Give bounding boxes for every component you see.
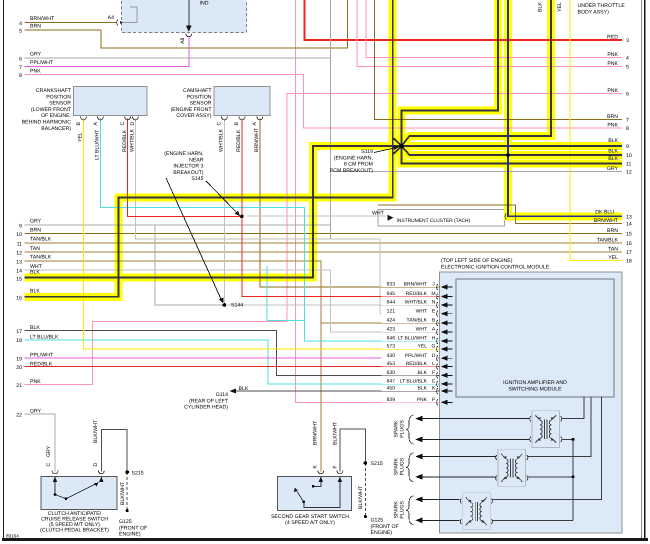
left edge wire labels/numbers: [16, 16, 59, 419]
svg-text:IGNITION AMPLIFIER AND: IGNITION AMPLIFIER AND: [503, 380, 567, 386]
svg-text:PPL/WHT: PPL/WHT: [30, 352, 54, 358]
pointer to splice S145: [206, 181, 238, 213]
svg-text:BLK: BLK: [239, 386, 249, 392]
svg-text:PNK: PNK: [30, 68, 41, 74]
wire BRN/WHT 14 (right): from cluster top jog at x=515.4: [378, 205, 622, 224]
wire BLK/WHT clutch pin D to splice S215: [101, 429, 127, 472]
svg-text:C: C: [432, 379, 436, 385]
svg-text:5: 5: [626, 65, 629, 71]
ground G125 (right): [364, 515, 367, 518]
clutch switch contact dot 2: [65, 497, 68, 500]
ignition coil T2: [496, 449, 528, 486]
BLK core: S119 north ray: [402, 0, 499, 146]
spark plug lead 2: [421, 438, 530, 440]
module pin arrow J: [441, 285, 448, 290]
connector cup A8: [186, 34, 192, 37]
svg-text:D: D: [130, 122, 136, 126]
svg-text:TAN: TAN: [608, 247, 618, 253]
svg-text:IND: IND: [200, 1, 209, 7]
svg-text:BLK/WHT: BLK/WHT: [358, 485, 364, 509]
splice S119: [399, 144, 403, 148]
wire BLK 450 module pin K to ground G114: [236, 390, 440, 392]
second gear switch contact dot 2: [302, 501, 305, 504]
svg-text:WHT/BLK: WHT/BLK: [405, 300, 428, 306]
svg-text:PNK: PNK: [607, 88, 618, 94]
svg-text:13: 13: [16, 260, 22, 266]
module pin rows: [387, 282, 436, 403]
svg-text:LT BLU/WHT: LT BLU/WHT: [398, 336, 427, 342]
module pin bracket B: [437, 320, 438, 326]
clutch switch contact dot 1: [54, 493, 57, 496]
module pin bracket K: [437, 388, 438, 394]
module pin arrow P: [441, 400, 448, 405]
svg-text:DK BLU: DK BLU: [595, 209, 614, 215]
splice S144: [223, 303, 227, 307]
spark plug arrow 5: [415, 497, 422, 503]
module pin arrow B: [441, 321, 448, 326]
wire BLK 17 to module pin F: [25, 330, 440, 375]
ignition coil T3: [460, 493, 492, 530]
svg-text:PNK: PNK: [30, 379, 41, 385]
svg-text:13: 13: [626, 214, 632, 220]
camshaft position sensor box: [214, 87, 270, 116]
svg-text:CRANKSHAFT: CRANKSHAFT: [36, 88, 72, 94]
svg-text:645: 645: [387, 291, 396, 297]
spark plugs brace pair 3: [406, 496, 414, 525]
svg-text:WHT: WHT: [416, 327, 427, 333]
wire PNK 839 to module pin P: vertical from top at x=295.7: [296, 0, 440, 402]
svg-text:H: H: [432, 336, 436, 342]
svg-text:4: 4: [19, 21, 22, 27]
svg-text:839: 839: [387, 397, 396, 403]
wire PNK 4 (right): vertical from top, to right edge: [366, 0, 622, 57]
module pin arrow M: [441, 294, 448, 299]
module pin bracket P: [437, 399, 438, 405]
clutch switch contact from pin C: [54, 477, 56, 495]
highlighted BLK wire halo: S119 vertical feed from top, down-left band to left edge wire 16: [25, 0, 393, 297]
wire RED/BLK cam pin B through S145 to module pin M: [242, 119, 440, 297]
wire PNK 6 + 21: right edge y=93.5 to left edge y=385 S-route: [25, 94, 623, 385]
splice S145: [240, 215, 244, 219]
crankshaft position sensor label: [22, 88, 72, 132]
module pin arrow E: [441, 311, 448, 316]
ignition coil assembly dashed box (cut off at top): [122, 0, 247, 33]
svg-text:14: 14: [16, 269, 22, 275]
svg-text:YEL: YEL: [78, 132, 84, 142]
module pin arrow G: [441, 347, 448, 352]
wire BLK/WHT dashed S215 to ground G125: [126, 472, 128, 510]
second gear start switch box: [278, 477, 352, 511]
svg-text:F: F: [432, 370, 435, 376]
svg-text:A4: A4: [108, 15, 114, 21]
wire BLK/WHT dashed S215 to ground G125 (right): [364, 463, 366, 516]
arrow into instrument cluster: [388, 215, 394, 221]
coil T3 feeds: [492, 397, 601, 500]
wire GRY 6 (left): to vertical x=330.3 going top: [25, 57, 331, 59]
svg-text:7: 7: [19, 65, 22, 71]
wire LT BLU/BLK 18 to module pin C: [25, 340, 440, 384]
svg-text:PNK: PNK: [607, 123, 618, 129]
wire WHT/BLK 644 branch to module pin N: [224, 304, 439, 306]
svg-text:S144: S144: [231, 303, 243, 309]
pointer to splice S119: [374, 148, 397, 153]
svg-text:WHT: WHT: [416, 308, 427, 314]
svg-text:B: B: [234, 122, 240, 126]
arrow up into second gear pin K: [319, 477, 323, 482]
connector cup crank pin C: [125, 117, 131, 120]
svg-text:10: 10: [16, 232, 22, 238]
svg-text:15: 15: [16, 277, 22, 283]
clutch switch link: [55, 495, 66, 499]
svg-text:BLK: BLK: [30, 289, 40, 295]
svg-text:BLK: BLK: [30, 269, 40, 275]
wire WHT/BLK cam pin C down to S144: [223, 119, 225, 306]
wire BLK/WHT second gear pin F to splice S215: [340, 429, 366, 472]
highlighted BLK wire halo: S119 east ray, wire 9: [402, 142, 623, 150]
svg-text:A: A: [252, 122, 258, 126]
wire TAN 12-17: straight across: [25, 251, 623, 253]
svg-text:NEAR: NEAR: [189, 157, 204, 163]
svg-text:PLUGS: PLUGS: [400, 457, 406, 475]
svg-text:TAN/BLK: TAN/BLK: [30, 255, 52, 261]
svg-text:OF ENGINE,: OF ENGINE,: [41, 113, 71, 119]
svg-text:TAN/BLK: TAN/BLK: [30, 237, 52, 243]
clutch switch label: [40, 511, 109, 534]
module pin arrow D: [441, 356, 448, 361]
svg-text:K: K: [313, 465, 319, 469]
wire GRY vertical x=330.3: [329, 0, 331, 239]
svg-text:POSITION: POSITION: [187, 94, 212, 100]
svg-text:RED/BLK: RED/BLK: [122, 129, 128, 152]
svg-text:SENSOR: SENSOR: [49, 101, 71, 107]
svg-text:YEL: YEL: [418, 344, 428, 350]
svg-text:17: 17: [626, 250, 632, 256]
module pin arrow K: [441, 389, 448, 394]
arrow on second gear blade: [294, 488, 298, 492]
wire WHT 14 (left) to module pin A: [25, 270, 440, 332]
module pin arrow L: [441, 364, 448, 369]
camshaft position sensor label: [171, 88, 213, 119]
module pin arrow H: [441, 339, 448, 344]
svg-text:(ENGINE HARN,: (ENGINE HARN,: [334, 155, 373, 161]
wire BRN 10-15: left edge to right edge straight: [25, 233, 623, 235]
svg-text:BRN/WHT: BRN/WHT: [404, 282, 427, 288]
BLK core: wire 10: [402, 146, 623, 155]
right page border inner: [640, 0, 642, 540]
svg-text:PNK: PNK: [607, 61, 618, 67]
module pin arrow F: [441, 373, 448, 378]
svg-text:20: 20: [16, 365, 22, 371]
BLK core: S119 west ray to wire 15: [25, 146, 402, 278]
right page border outer: [644, 0, 646, 540]
spark plug arrow 2: [415, 437, 422, 443]
svg-text:RED/BLK: RED/BLK: [406, 361, 428, 367]
module pin bracket M: [437, 294, 438, 300]
svg-text:(LOWER FRONT: (LOWER FRONT: [31, 107, 72, 113]
svg-text:89164: 89164: [6, 534, 19, 539]
second gear switch pin F internal path: [304, 477, 340, 508]
BLK core: S119 feed and band to wire 16: [25, 0, 393, 297]
clutch switch blade: [66, 483, 99, 499]
svg-text:(ENGINE HARN,: (ENGINE HARN,: [164, 151, 203, 157]
svg-text:YEL: YEL: [608, 255, 618, 261]
svg-text:CAMSHAFT: CAMSHAFT: [183, 88, 212, 94]
ignition coil T1: [530, 411, 562, 448]
svg-text:GRY: GRY: [30, 219, 42, 225]
svg-text:12: 12: [626, 170, 632, 176]
svg-text:G125: G125: [119, 519, 132, 525]
S145 splice label: [164, 151, 203, 182]
wire GRY S144 feed: from wire 9 down to splice S144: [155, 225, 222, 305]
connector cup second gear pin K: [318, 471, 324, 474]
wire RED 3: from coil top, corner at x=304.5 to right edge: [305, 0, 623, 40]
S119 splice label: [330, 149, 374, 174]
svg-text:BRN: BRN: [30, 24, 41, 30]
svg-text:BRN/WHT: BRN/WHT: [30, 16, 55, 22]
svg-text:ELECTRONIC IGNITION CONTROL MO: ELECTRONIC IGNITION CONTROL MODULE: [441, 264, 550, 270]
svg-text:7: 7: [626, 118, 629, 124]
svg-text:PCM BREAKOUT): PCM BREAKOUT): [330, 168, 374, 174]
svg-text:BLK: BLK: [30, 325, 40, 331]
svg-text:11: 11: [626, 162, 631, 168]
coil bus junction 2: [572, 475, 575, 478]
connector cup cam pin A: [257, 117, 263, 120]
svg-text:PNK: PNK: [607, 52, 618, 58]
spark plugs brace pair 2: [406, 453, 414, 482]
spark plug lead 5: [421, 498, 460, 500]
DK BLU core: tach signal wire 13: [508, 0, 622, 216]
spark plug arrow 1: [415, 416, 422, 422]
ignition amplifier and switching module inner box: [456, 279, 614, 397]
svg-text:RED/BLK: RED/BLK: [30, 361, 53, 367]
svg-text:C: C: [120, 122, 126, 126]
wire LT BLU branch L at x=267: [267, 266, 305, 320]
svg-text:S215: S215: [132, 470, 144, 476]
wire PNK 8: left edge y=74.7, jog at x=303.4 down to y=128, to right edge: [25, 75, 623, 128]
connector arrow A4: [120, 21, 124, 24]
BLK core: S119 NW/SW diagonals: [393, 138, 402, 155]
svg-text:G: G: [432, 344, 436, 350]
module pin arrow A: [441, 330, 448, 335]
connector cup clutch pin D: [98, 471, 104, 474]
svg-text:4: 4: [626, 55, 629, 61]
svg-text:17: 17: [16, 329, 22, 335]
svg-text:B: B: [76, 122, 82, 126]
highlighted BLK wire halo: S119 north-east ray to x=551 vertical: [402, 0, 552, 146]
svg-text:A: A: [93, 122, 99, 126]
wire TAN/BLK 13 to second gear start switch pin K: [25, 261, 321, 472]
svg-text:TAN: TAN: [30, 246, 40, 252]
rotated labels: [46, 2, 563, 519]
connector cup clutch pin C: [52, 471, 58, 474]
wire BRN/WHT cam pin A to module pin J: [260, 119, 440, 288]
wire BRN 7: vertical from top at x=374.7 to right edge y=119.5: [375, 0, 622, 120]
wire BRN/WHT 4 (left): [25, 21, 118, 23]
svg-text:BREAKOUT): BREAKOUT): [173, 170, 204, 176]
wire PPL/WHT 7 to connector A8: [25, 37, 189, 67]
svg-text:10: 10: [626, 153, 632, 159]
svg-text:LT BLU/BLK: LT BLU/BLK: [30, 335, 59, 341]
svg-text:BLK/WHT: BLK/WHT: [333, 421, 339, 445]
second gear switch label: [271, 514, 349, 526]
svg-text:WHT: WHT: [372, 210, 385, 216]
arrow on clutch blade: [94, 483, 98, 487]
svg-text:WHT/BLK: WHT/BLK: [219, 128, 225, 152]
svg-text:BLK: BLK: [418, 386, 428, 392]
coil common bus: [572, 439, 574, 520]
svg-text:UNDER THROTTLE: UNDER THROTTLE: [578, 3, 626, 9]
svg-text:(TOP LEFT SIDE OF ENGINE): (TOP LEFT SIDE OF ENGINE): [441, 258, 513, 264]
second gear switch blade: [295, 488, 304, 502]
svg-text:GRY: GRY: [30, 409, 42, 415]
module pin bracket F: [437, 372, 438, 378]
ground G125 (left): [126, 509, 129, 512]
svg-text:S215: S215: [371, 461, 383, 467]
svg-text:(FRONT OF: (FRONT OF: [119, 525, 147, 531]
svg-text:A8: A8: [180, 38, 186, 44]
svg-text:INSTRUMENT CLUSTER (TACH): INSTRUMENT CLUSTER (TACH): [397, 218, 471, 224]
spark plug lead 3: [421, 456, 496, 458]
svg-text:BEHIND HARMONIC: BEHIND HARMONIC: [22, 120, 72, 126]
second gear switch contact dot 1: [312, 485, 315, 488]
svg-text:POSITION: POSITION: [46, 94, 71, 100]
svg-text:C: C: [217, 122, 223, 126]
spark plug arrow 3: [415, 454, 422, 460]
svg-text:14: 14: [626, 222, 632, 228]
instrument cluster box: [378, 210, 505, 227]
svg-text:PNK: PNK: [417, 397, 428, 403]
BLK core: wire 9: [402, 145, 623, 147]
svg-text:YEL: YEL: [557, 2, 563, 12]
left page border: [3, 0, 5, 540]
module pin bracket C: [437, 381, 438, 387]
highlighted BLK wire halo: S119 north ray up to coil (top edge): [402, 0, 499, 146]
ground G114 label: [184, 392, 229, 411]
svg-text:CYLINDER HEAD): CYLINDER HEAD): [184, 405, 228, 411]
svg-text:6: 6: [19, 56, 22, 62]
connector cup crank pin B: [81, 117, 87, 120]
spark plugs brace pair 1: [406, 415, 414, 444]
spark plug lead 6: [421, 519, 460, 521]
svg-text:BRN/WHT: BRN/WHT: [594, 218, 619, 224]
module pin bracket G: [437, 346, 438, 352]
wire WHT tach lead to instrument cluster: [247, 215, 387, 217]
svg-text:450: 450: [387, 386, 396, 392]
arrow down into A8: [186, 26, 192, 32]
module pin arrow C: [441, 381, 448, 386]
svg-text:S145: S145: [191, 176, 203, 182]
arrow up into clutch pin D: [99, 477, 103, 482]
svg-text:8: 8: [626, 126, 629, 132]
clutch anticipate / cruise release switch box: [41, 477, 117, 510]
connector cup crank pin A: [97, 117, 103, 120]
svg-text:BLK/WHT: BLK/WHT: [93, 419, 99, 443]
svg-text:PPL/WHT: PPL/WHT: [30, 60, 54, 66]
svg-text:647: 647: [387, 379, 396, 385]
connector cup cam pin B: [239, 117, 245, 120]
connector cup crank pin D: [132, 117, 138, 120]
wire RED/BLK crank pin C to splice S145: [128, 119, 240, 217]
svg-text:RED: RED: [607, 35, 618, 41]
svg-text:PLUGS: PLUGS: [400, 420, 406, 438]
spark plug lead 1: [421, 418, 530, 420]
module pin bracket H: [437, 338, 438, 344]
highlighted BLK wire halo: S119 NW/SW diagonals to x=392.7 vertical: [393, 138, 402, 155]
svg-text:BLK: BLK: [608, 156, 618, 162]
svg-text:BLK: BLK: [418, 370, 428, 376]
coil bus junction 1: [572, 438, 575, 441]
svg-text:PLUGS: PLUGS: [400, 500, 406, 518]
svg-text:646: 646: [387, 336, 396, 342]
svg-text:LT BLU/WHT: LT BLU/WHT: [95, 129, 101, 160]
svg-text:N: N: [432, 300, 436, 306]
highlighted BLK wire halo: S119 west ray to wire 15 left edge: [25, 146, 402, 278]
svg-text:COVER ASSY): COVER ASSY): [176, 113, 211, 119]
svg-text:(ENGINE FRONT: (ENGINE FRONT: [171, 107, 213, 113]
svg-text:11: 11: [17, 241, 22, 247]
svg-text:C: C: [46, 463, 52, 467]
svg-text:GRY: GRY: [46, 445, 52, 457]
arrow ground G114: [230, 388, 237, 393]
svg-text:3: 3: [626, 38, 629, 44]
svg-text:430: 430: [387, 353, 396, 359]
svg-text:(4 SPEED A/T ONLY): (4 SPEED A/T ONLY): [285, 520, 335, 526]
svg-text:121: 121: [387, 308, 396, 314]
bottom page border: [2, 538, 648, 541]
svg-text:TAN/BLK: TAN/BLK: [597, 237, 619, 243]
highlighted BLK wire halo: S119 south-east ray, wire 10: [402, 146, 623, 155]
module pin bracket E: [437, 311, 438, 317]
svg-text:BALANCER): BALANCER): [41, 126, 71, 132]
svg-text:(REAR OF LEFT: (REAR OF LEFT: [189, 398, 229, 404]
svg-text:424: 424: [387, 318, 396, 324]
wire YEL 18 (right): vertical from top at x=570: [570, 0, 622, 260]
right edge wire labels/numbers: [594, 35, 632, 265]
svg-text:BRN/WHT: BRN/WHT: [254, 127, 260, 152]
wire GRY 12 (right): [330, 171, 622, 173]
wire PNK 5 (right): vertical from top, to right edge: [357, 0, 622, 67]
svg-text:15: 15: [626, 232, 632, 238]
clutch switch pin D stub: [100, 477, 102, 482]
svg-text:F: F: [333, 465, 339, 468]
wire LT BLU/WHT crank pin A to module pin H: [100, 119, 439, 342]
svg-text:573: 573: [387, 344, 396, 350]
second gear switch contact from pin K: [313, 477, 321, 487]
coil T1 secondary feeds: [562, 397, 585, 419]
svg-text:22: 22: [16, 413, 22, 419]
indicator arrow line inside dashed box: [188, 0, 190, 26]
svg-text:833: 833: [387, 282, 396, 288]
spark plug arrow 6: [415, 518, 422, 524]
svg-text:BRN: BRN: [607, 114, 618, 120]
svg-text:INJECTOR 3: INJECTOR 3: [173, 164, 203, 170]
svg-text:16: 16: [626, 241, 632, 247]
splice on BLK wire 10 at x=508: [506, 153, 509, 156]
wire TAN/BLK 424 branch to module pin B: [321, 322, 440, 324]
svg-text:PPL/WHT: PPL/WHT: [405, 353, 427, 359]
svg-text:ENGINE): ENGINE): [371, 530, 393, 536]
svg-text:5: 5: [19, 29, 22, 35]
svg-text:9: 9: [19, 223, 22, 229]
wire WHT/BLK crank pin D to module pin E: [135, 119, 439, 314]
svg-text:453: 453: [387, 361, 396, 367]
module pin bracket L: [437, 364, 438, 370]
svg-text:RED/BLK: RED/BLK: [406, 291, 428, 297]
svg-text:G114: G114: [216, 392, 228, 398]
svg-text:RED/BLK: RED/BLK: [236, 129, 242, 152]
wire YEL crank pin B to module pin G: [84, 119, 440, 350]
module pin bracket D: [437, 355, 438, 361]
